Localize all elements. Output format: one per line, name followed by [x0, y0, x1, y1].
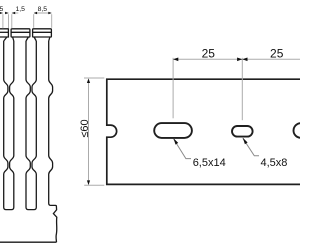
svg-text:25: 25 [202, 47, 216, 61]
svg-text:25: 25 [270, 47, 284, 61]
svg-text:4,5x8: 4,5x8 [261, 157, 288, 169]
svg-text:≤60: ≤60 [79, 119, 91, 137]
svg-text:8,5: 8,5 [0, 6, 4, 13]
svg-text:6,5x14: 6,5x14 [193, 157, 226, 169]
svg-text:1,5: 1,5 [15, 6, 25, 13]
svg-text:8,5: 8,5 [38, 6, 48, 13]
